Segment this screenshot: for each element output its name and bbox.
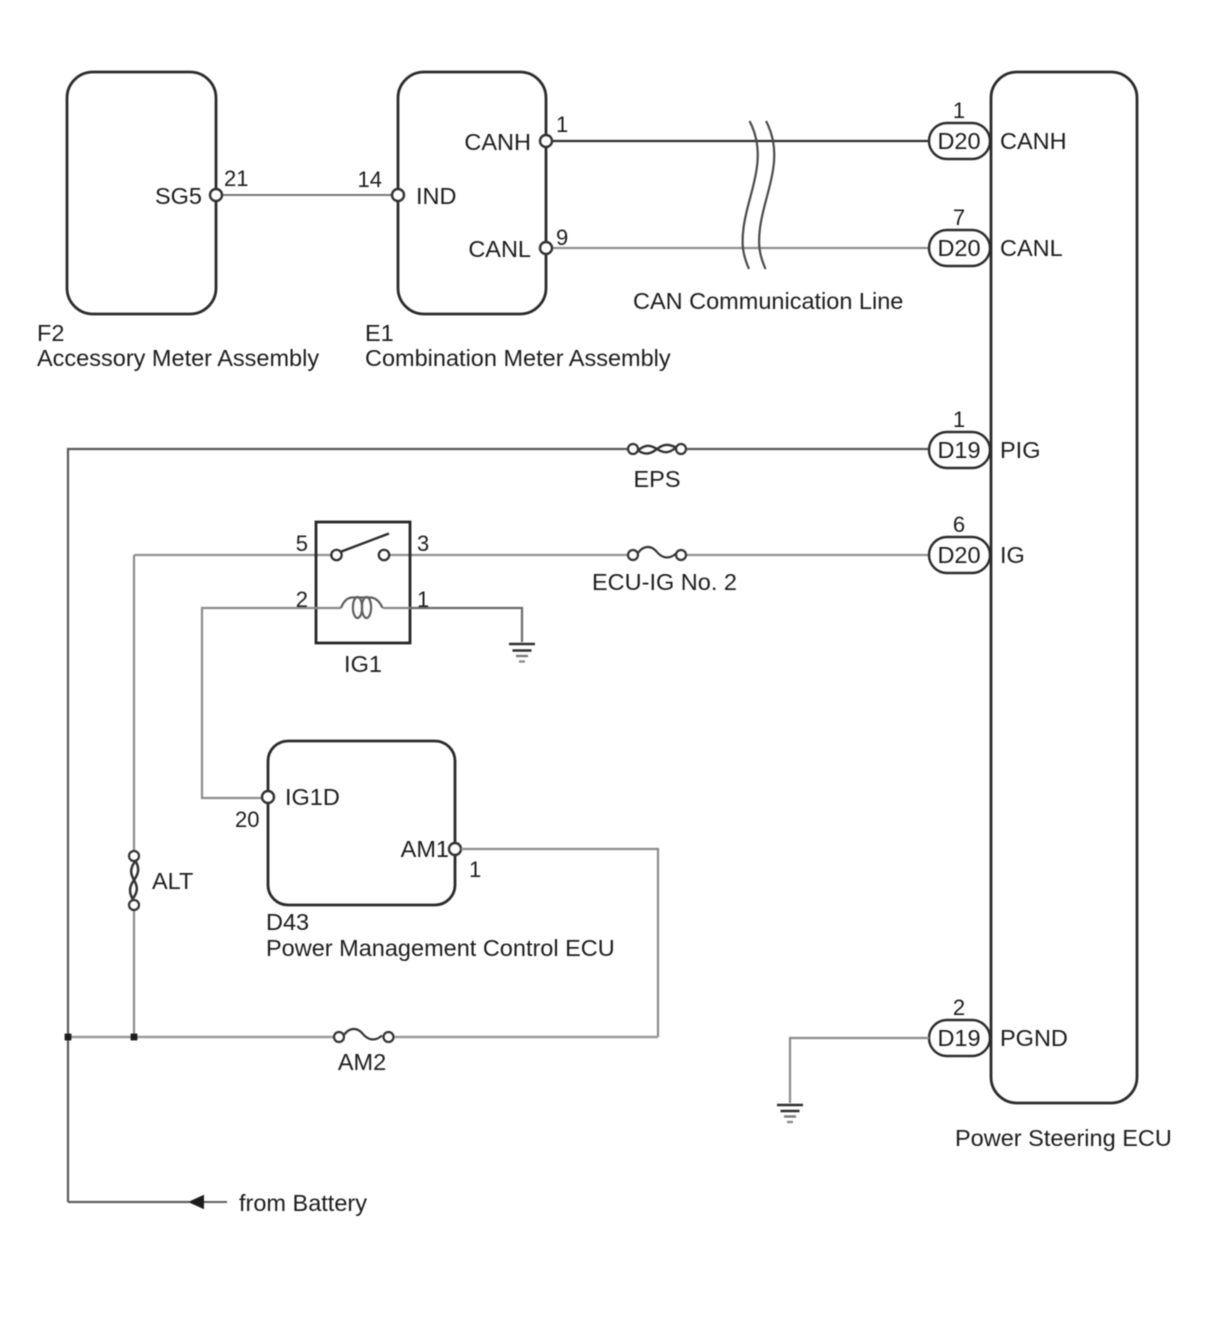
svg-text:20: 20 [235, 807, 259, 832]
svg-text:Power Steering ECU: Power Steering ECU [955, 1125, 1172, 1151]
svg-text:2: 2 [953, 995, 965, 1020]
svg-text:D20: D20 [937, 235, 980, 261]
connector D20 pin 6 IG [929, 512, 1025, 573]
svg-text:D19: D19 [937, 1025, 980, 1051]
wire CANH [546, 140, 929, 142]
wire PGND to ground [790, 1038, 929, 1103]
wire SG5 to IND [216, 194, 398, 196]
svg-text:CANH: CANH [464, 129, 531, 155]
svg-text:PGND: PGND [1000, 1025, 1068, 1051]
svg-text:D20: D20 [937, 542, 980, 568]
connector E1 Combination Meter Assembly [365, 72, 671, 371]
svg-text:1: 1 [469, 857, 481, 882]
svg-text:E1: E1 [365, 320, 394, 346]
svg-text:AM1: AM1 [401, 836, 449, 862]
svg-text:F2: F2 [37, 320, 64, 346]
connector D19 pin 2 PGND [929, 995, 1068, 1056]
svg-text:CANH: CANH [1000, 128, 1067, 154]
fuse AM2 [334, 1029, 394, 1075]
svg-text:21: 21 [224, 166, 248, 191]
svg-text:9: 9 [556, 225, 568, 250]
ECU box Power Steering ECU [955, 72, 1172, 1151]
wire AM2 bottom line [68, 1036, 658, 1038]
wire relay pin 1 to ground [410, 608, 522, 642]
svg-text:1: 1 [953, 407, 965, 432]
wire CANL [546, 247, 929, 249]
svg-text:3: 3 [417, 531, 429, 556]
net label CAN Communication Line [633, 288, 903, 314]
relay IG1 coil [316, 597, 410, 618]
svg-text:Accessory Meter Assembly: Accessory Meter Assembly [37, 345, 319, 371]
wire relay pin 2 to IG1D [202, 608, 316, 798]
relay IG1 box [316, 522, 410, 677]
svg-text:5: 5 [296, 531, 308, 556]
pin 1 AM1 on D43 [401, 836, 482, 882]
svg-text:1: 1 [953, 98, 965, 123]
relay IG1 switch contacts [331, 534, 389, 561]
svg-text:1: 1 [556, 112, 568, 137]
wire battery branch vertical ALT [133, 555, 135, 1037]
svg-text:D43: D43 [266, 909, 309, 935]
junction at battery feed [65, 1034, 72, 1041]
svg-text:EPS: EPS [633, 466, 680, 492]
svg-text:7: 7 [953, 205, 965, 230]
svg-text:D19: D19 [937, 437, 980, 463]
svg-text:CANL: CANL [1000, 235, 1063, 261]
svg-text:Power Management Control ECU: Power Management Control ECU [266, 935, 615, 961]
svg-text:IG1: IG1 [344, 651, 382, 677]
svg-text:IND: IND [416, 183, 456, 209]
svg-text:ALT: ALT [152, 868, 193, 894]
connector D20 pin 7 CANL [929, 205, 1063, 266]
connector D19 pin 1 PIG [929, 407, 1040, 468]
arrow from Battery [188, 1190, 367, 1216]
wire PIG feed with corner [68, 449, 929, 1202]
svg-text:Combination Meter Assembly: Combination Meter Assembly [365, 345, 671, 371]
fuse EPS [628, 444, 686, 492]
svg-text:14: 14 [358, 167, 382, 192]
svg-text:SG5: SG5 [155, 183, 202, 209]
svg-text:IG: IG [1000, 542, 1025, 568]
svg-text:D20: D20 [937, 128, 980, 154]
svg-text:AM2: AM2 [338, 1049, 386, 1075]
pin 14 IND on E1 [358, 167, 457, 209]
svg-text:CAN Communication Line: CAN Communication Line [633, 288, 903, 314]
wire AM1 to AM2 line [461, 849, 658, 1037]
junction at ALT branch [131, 1034, 138, 1041]
ground for PGND [777, 1105, 803, 1122]
svg-text:6: 6 [953, 512, 965, 537]
svg-text:from Battery: from Battery [239, 1190, 367, 1216]
pin 1 CANH on E1 [464, 112, 568, 155]
svg-text:IG1D: IG1D [285, 784, 340, 810]
svg-text:CANL: CANL [468, 236, 531, 262]
svg-text:ECU-IG No. 2: ECU-IG No. 2 [592, 569, 737, 595]
wire break symbol on CAN lines [743, 121, 775, 269]
connector D20 pin 1 CANH [929, 98, 1067, 159]
wire from Battery [68, 1201, 227, 1203]
pin 20 IG1D on D43 [235, 784, 340, 832]
pin SG5 (21) on F2 [155, 166, 249, 209]
fusible link ALT [129, 851, 193, 910]
connector F2 Accessory Meter Assembly [37, 72, 319, 371]
relay IG1 pin labels 5 3 2 1 [296, 531, 430, 612]
ECU box D43 Power Management Control ECU [266, 741, 615, 961]
pin 9 CANL on E1 [468, 225, 568, 262]
wire IG line left segment [134, 554, 929, 556]
svg-text:PIG: PIG [1000, 437, 1040, 463]
ground for relay coil [509, 644, 535, 662]
fuse ECU-IG No. 2 [592, 547, 737, 595]
